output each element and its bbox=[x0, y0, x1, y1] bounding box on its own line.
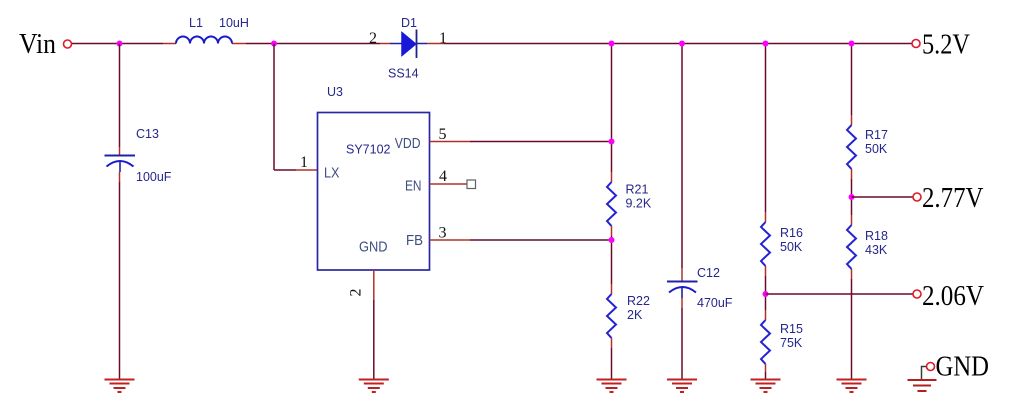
svg-text:1: 1 bbox=[300, 154, 308, 171]
junction R17/R18/2.77V bbox=[849, 194, 855, 200]
pin FB of U3 (red) bbox=[430, 239, 471, 241]
wire D1 cathode to 5.2V terminal bbox=[444, 43, 912, 45]
wire R15 to ground bbox=[765, 372, 767, 379]
svg-text:5: 5 bbox=[439, 126, 447, 143]
svg-text:C13: C13 bbox=[136, 127, 159, 141]
resistor R21 bbox=[607, 182, 616, 226]
wire GND terminal to ground bbox=[922, 367, 927, 380]
pin R21 bottom (red stub) bbox=[611, 226, 613, 236]
svg-text:R16: R16 bbox=[780, 226, 803, 240]
svg-text:2K: 2K bbox=[627, 308, 643, 322]
pin D1 pin2 (red stub) bbox=[380, 43, 390, 45]
pin R22 top (red stub) bbox=[611, 284, 613, 294]
pin VDD of U3 (red) bbox=[430, 141, 471, 143]
wire 5.2V rail to R21 bbox=[611, 44, 613, 173]
pin R18 bottom (red stub) bbox=[851, 269, 853, 279]
pin R17 bottom (red stub) bbox=[851, 169, 853, 179]
svg-text:2: 2 bbox=[369, 30, 377, 47]
svg-text:GND: GND bbox=[359, 240, 388, 256]
pin R21 top (red stub) bbox=[611, 172, 613, 182]
pin L1 left (red stub) bbox=[163, 43, 176, 45]
resistor R18 bbox=[847, 225, 856, 269]
svg-text:GND: GND bbox=[936, 352, 990, 383]
ground under R15 bbox=[751, 380, 781, 393]
svg-text:SS14: SS14 bbox=[388, 67, 419, 81]
wire VDD to R21 top bbox=[470, 141, 612, 143]
resistor R22 bbox=[607, 294, 616, 338]
svg-text:43K: 43K bbox=[865, 243, 888, 257]
wire 2.77V node to terminal bbox=[852, 196, 914, 198]
pin LX of U3 (red) bbox=[296, 169, 318, 171]
svg-text:9.2K: 9.2K bbox=[626, 197, 652, 211]
svg-text:2: 2 bbox=[348, 289, 365, 297]
wire C13 to ground bbox=[119, 182, 121, 379]
wire LX horizontal bbox=[274, 169, 296, 171]
wire R18 to ground (crosses 2.06V wire) bbox=[851, 279, 853, 379]
svg-text:1: 1 bbox=[439, 30, 447, 47]
terminal 5.2V bbox=[912, 40, 920, 48]
wire 5.2V rail to R17 bbox=[851, 44, 853, 116]
svg-text:R21: R21 bbox=[626, 183, 649, 197]
no-connect square on EN bbox=[467, 180, 476, 189]
junction 5.2V rail at C12 column bbox=[679, 41, 685, 47]
pin EN of U3 (red) bbox=[430, 183, 468, 185]
pin GND of U3 (red) bbox=[373, 270, 375, 300]
terminal 2.77V bbox=[913, 193, 921, 201]
svg-text:100uF: 100uF bbox=[136, 170, 172, 184]
pin C12 top (red stub) bbox=[681, 268, 683, 281]
svg-text:EN: EN bbox=[405, 179, 422, 195]
svg-text:470uF: 470uF bbox=[697, 296, 733, 310]
svg-text:SY7102: SY7102 bbox=[346, 143, 391, 157]
junction R16/R15/2.06V bbox=[763, 291, 769, 297]
svg-text:R22: R22 bbox=[627, 294, 650, 308]
wire C12 to ground bbox=[681, 308, 683, 379]
ground under C13 bbox=[105, 380, 135, 393]
pin R16 bottom (red stub) bbox=[765, 266, 767, 276]
ground under R22 bbox=[597, 380, 627, 393]
svg-text:5.2V: 5.2V bbox=[922, 30, 970, 61]
wire R17 to 2.77V node bbox=[851, 179, 853, 215]
svg-text:R15: R15 bbox=[780, 322, 803, 336]
svg-text:2.06V: 2.06V bbox=[922, 281, 984, 312]
svg-text:75K: 75K bbox=[780, 336, 803, 350]
wire 2.06V node to terminal bbox=[766, 293, 914, 295]
pin D1 pin1 (red stub) bbox=[427, 43, 444, 45]
terminal GND bbox=[927, 363, 935, 371]
pin R17 top (red stub) bbox=[851, 115, 853, 125]
svg-text:50K: 50K bbox=[780, 240, 803, 254]
pin R15 bottom (red stub) bbox=[765, 364, 767, 372]
svg-text:R17: R17 bbox=[865, 128, 888, 142]
svg-text:VDD: VDD bbox=[395, 136, 421, 152]
junction at L1/LX bbox=[271, 41, 277, 47]
svg-text:3: 3 bbox=[439, 225, 447, 242]
wire L1 right to LX junction bbox=[246, 43, 274, 45]
svg-text:LX: LX bbox=[324, 166, 340, 182]
capacitor C12 bbox=[667, 282, 698, 299]
resistor R15 bbox=[761, 320, 770, 364]
inductor L1 bbox=[176, 37, 232, 44]
junction 5.2V rail at R16 column bbox=[763, 41, 769, 47]
junction 5.2V rail at R17 column bbox=[849, 41, 855, 47]
svg-text:R18: R18 bbox=[865, 229, 888, 243]
pin R15 top (red stub) bbox=[765, 310, 767, 320]
ground at GND terminal bbox=[908, 380, 937, 391]
resistor R17 bbox=[847, 125, 856, 169]
junction FB/R21/R22 bbox=[609, 237, 615, 243]
wire 5.2V rail to C12 bbox=[681, 44, 683, 269]
wire LX junction to D1 anode bbox=[274, 43, 380, 45]
ground under R18 column bbox=[837, 380, 867, 393]
wire Vin terminal to C13 junction bbox=[72, 43, 120, 45]
wire R21 to FB node bbox=[611, 236, 613, 284]
junction VDD/R21 bbox=[609, 139, 615, 145]
wire R16 to 2.06V node bbox=[765, 276, 767, 310]
svg-text:D1: D1 bbox=[401, 16, 417, 30]
pin L1 right (red stub) bbox=[232, 43, 246, 45]
pin C13 top (red stub) bbox=[119, 147, 121, 155]
pin R16 top (red stub) bbox=[765, 212, 767, 222]
wire U3 GND to ground bbox=[373, 300, 375, 379]
svg-text:U3: U3 bbox=[327, 85, 343, 99]
pin R22 bottom (red stub) bbox=[611, 338, 613, 348]
svg-text:2.77V: 2.77V bbox=[922, 183, 984, 214]
wire C13 junction to L1 left bbox=[120, 43, 164, 45]
op-amp U3 box bbox=[318, 113, 430, 271]
svg-text:10uH: 10uH bbox=[219, 16, 249, 30]
ground under C12 bbox=[667, 380, 697, 393]
ground under U3 bbox=[359, 380, 389, 393]
wire 5.2V rail to R16 bbox=[765, 44, 767, 213]
junction 5.2V rail at R21 column bbox=[609, 41, 615, 47]
junction at Vin/C13 bbox=[117, 41, 123, 47]
wire R22 to ground bbox=[611, 348, 613, 379]
svg-text:Vin: Vin bbox=[19, 29, 56, 60]
pin R18 top (red stub) bbox=[851, 215, 853, 225]
pin C12 bottom (red stub) bbox=[681, 298, 683, 308]
wire LX vertical bbox=[273, 44, 275, 171]
terminal Vin bbox=[64, 40, 72, 48]
svg-text:L1: L1 bbox=[189, 16, 203, 30]
svg-text:50K: 50K bbox=[865, 142, 888, 156]
svg-text:C12: C12 bbox=[697, 266, 720, 280]
wire C13 top bbox=[119, 44, 121, 148]
svg-text:FB: FB bbox=[406, 233, 423, 249]
capacitor C13 bbox=[105, 156, 136, 173]
resistor R16 bbox=[761, 222, 770, 266]
svg-text:4: 4 bbox=[439, 168, 447, 185]
diode D1 bbox=[390, 30, 427, 59]
wire FB to R21/R22 node bbox=[470, 239, 612, 241]
pin C13 bottom (red stub) bbox=[119, 172, 121, 182]
terminal 2.06V bbox=[913, 290, 921, 298]
